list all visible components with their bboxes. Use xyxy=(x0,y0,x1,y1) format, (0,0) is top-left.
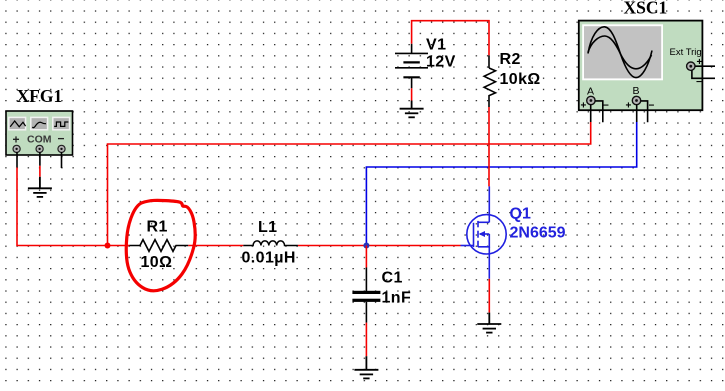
wire: node C up to scope B (blue) xyxy=(366,122,636,246)
wire: scope Ext Trig plus stub (black) xyxy=(695,65,715,67)
wire: scope A minus pin stub (black) xyxy=(595,101,603,122)
wire: R2 top pin stub (black) xyxy=(488,55,490,68)
wire: C1 bottom pin stub (black) xyxy=(365,302,367,323)
capacitor C1 (plates) xyxy=(352,291,380,294)
node junction dot (blue) at node C xyxy=(363,243,369,249)
svg-text:V1: V1 xyxy=(426,37,446,54)
ground under Q1 source xyxy=(477,313,501,333)
wire: V1 top (red) to R2 top xyxy=(412,21,489,56)
wire: R2 bottom pin stub (black) xyxy=(488,99,490,107)
svg-text:C1: C1 xyxy=(382,270,403,287)
wire: Q1 drain lead (blue) xyxy=(488,186,490,222)
svg-text:+: + xyxy=(626,101,632,112)
ground under XFG1 COM xyxy=(28,177,52,197)
wire: XFG1 + pin stub xyxy=(16,152,18,168)
wire: XFG1 + to main node (red) xyxy=(17,168,108,246)
svg-text:−: − xyxy=(58,132,65,146)
node junction dot (red) at main wire xyxy=(105,243,111,249)
inductor L1 (bumps) xyxy=(243,241,298,246)
ground under C1 xyxy=(354,356,378,378)
wire: V1 bottom pin stub (black) xyxy=(411,77,413,88)
svg-text:B: B xyxy=(633,85,640,97)
svg-text:0.01µH: 0.01µH xyxy=(242,250,296,267)
svg-text:−: − xyxy=(603,101,609,112)
wire: scope A pin stub (black) xyxy=(590,105,592,123)
wire: XFG1 COM to ground (red) xyxy=(39,166,41,177)
svg-text:1nF: 1nF xyxy=(382,290,412,307)
wire: XFG1 minus pin stub (black) xyxy=(61,152,63,168)
wire: R2 down toward Q1 drain (red) xyxy=(488,107,490,186)
svg-text:XSC1: XSC1 xyxy=(624,0,668,18)
wire: Q1 source to ground (red) xyxy=(488,279,490,313)
wire: XFG1 COM pin stub (black) xyxy=(39,152,41,166)
resistor R2 (vertical zigzag) xyxy=(484,68,495,99)
wire: R1 to L1 (red) xyxy=(188,245,243,247)
wire: node C down to C1 (red) xyxy=(365,246,367,268)
battery V1 xyxy=(395,44,428,78)
ground under V1 xyxy=(400,101,424,118)
svg-text:XFG1: XFG1 xyxy=(17,86,63,106)
wire: Q1 source lead (blue) xyxy=(488,247,490,279)
svg-text:+: + xyxy=(581,101,587,112)
wire: C1 top pin stub (black) xyxy=(365,268,367,292)
svg-text:R1: R1 xyxy=(147,219,168,236)
svg-text:−: − xyxy=(649,101,655,112)
resistor R1 (zigzag) xyxy=(129,240,188,252)
function generator XFG1 body xyxy=(6,111,73,155)
svg-text:10Ω: 10Ω xyxy=(141,254,173,271)
svg-text:2N6659: 2N6659 xyxy=(510,225,566,242)
wire: V1 to ground (red) xyxy=(411,88,413,100)
svg-text:12V: 12V xyxy=(426,54,456,71)
wire: scope B pin stub (black) xyxy=(636,105,638,123)
wire: junction to R1 (red) xyxy=(108,245,130,247)
wire: junction up and across to scope A (red) xyxy=(108,122,591,246)
svg-text:R2: R2 xyxy=(500,51,521,68)
svg-text:Q1: Q1 xyxy=(510,206,531,223)
wire: scope Ext Trig minus stub (black) xyxy=(692,71,715,79)
svg-text:L1: L1 xyxy=(258,219,277,236)
wire: scope B minus pin stub (black) xyxy=(641,101,648,122)
wire: C1 to ground (red) xyxy=(365,323,367,357)
wire: node C to Q1 gate (red) xyxy=(366,245,460,247)
annotation: red freehand circle around R1 xyxy=(126,200,195,290)
oscilloscope XSC1 body xyxy=(579,21,703,112)
svg-text:+: + xyxy=(13,133,20,147)
transistor Q1 2N6659 (NMOS symbol, blue) xyxy=(461,215,507,254)
svg-text:10kΩ: 10kΩ xyxy=(500,71,541,88)
svg-text:COM: COM xyxy=(27,134,52,146)
wire: L1 to node C (red) xyxy=(298,245,367,247)
